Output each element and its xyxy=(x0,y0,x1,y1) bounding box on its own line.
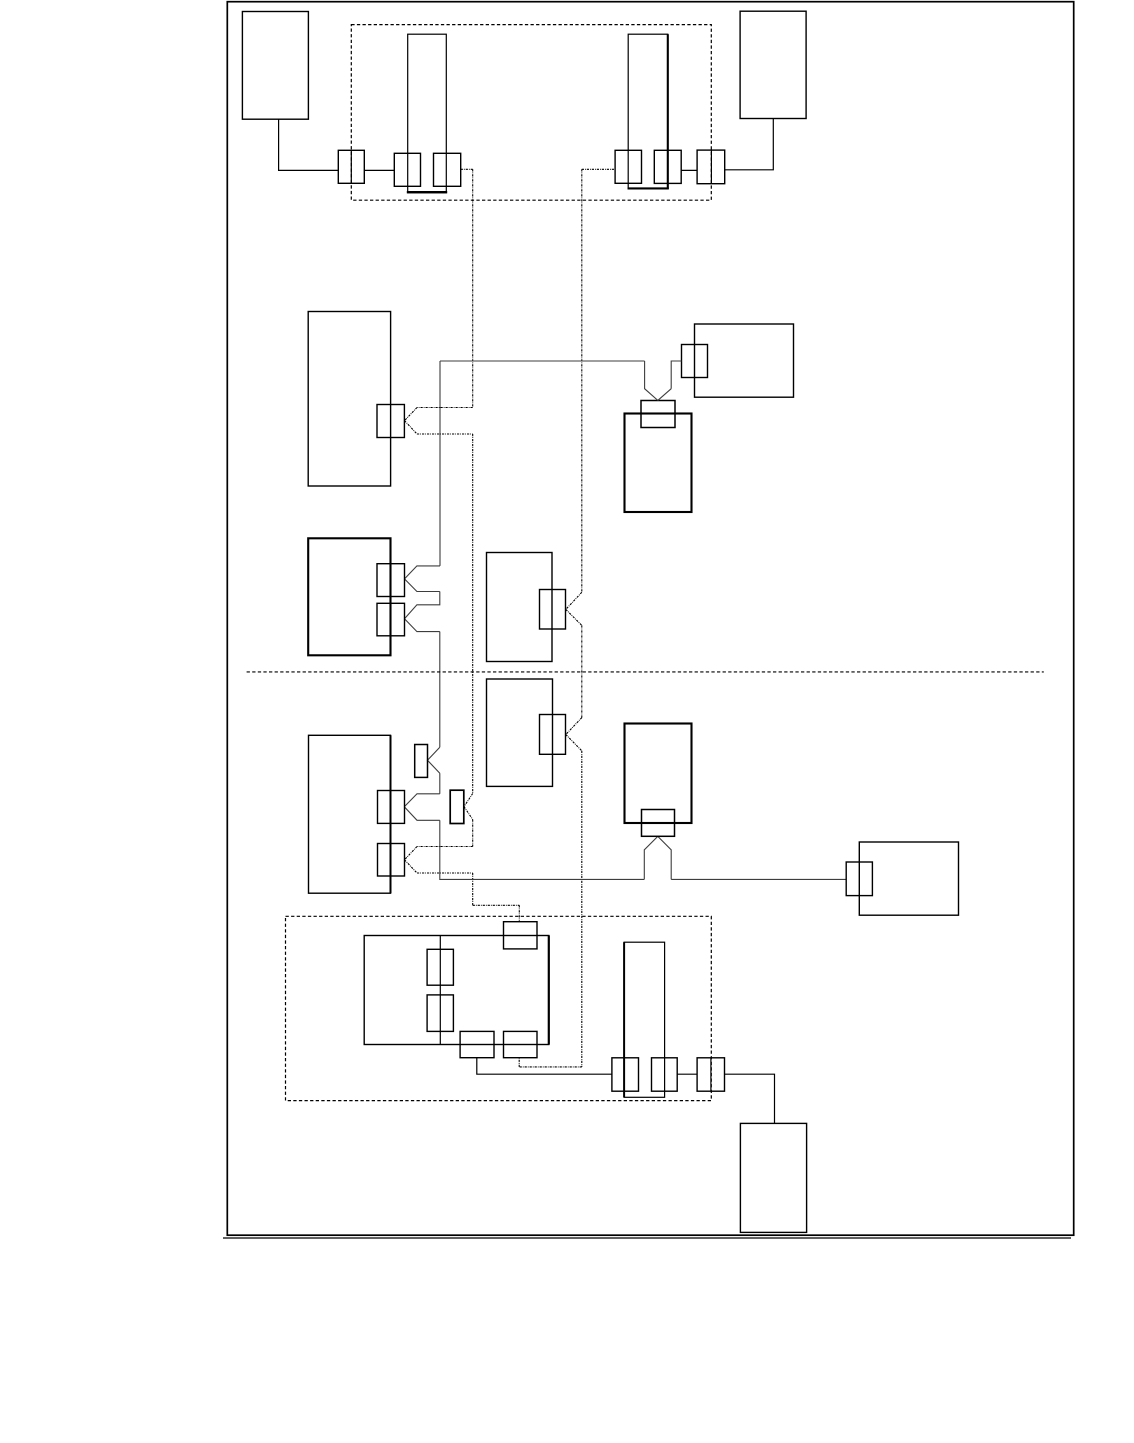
wire: fork left prong up into port PM xyxy=(644,836,658,879)
wire W1: vertical segment below P1 xyxy=(439,773,441,794)
box TB (connector on J top edge) xyxy=(504,922,538,949)
wire W1: vertical segment to bottom corner xyxy=(439,820,441,879)
frame: outer border of sheet xyxy=(227,2,1073,1236)
connector CM1 (on BL left edge) xyxy=(612,1058,639,1091)
link V1 vertical: bottom segment to corner xyxy=(472,873,474,905)
link V1: port P3 fork lower horizontal xyxy=(417,872,473,874)
wire: arrow out of port PF2 lower arm xyxy=(405,619,440,632)
port PF2 on block F right edge xyxy=(377,603,405,636)
link V2: block H port notch upper diagonal xyxy=(566,718,582,735)
wire: detour out of port P2 lower arm xyxy=(404,807,440,821)
link V1 vertical: top segment (CN3 stub down to block C upper fork) xyxy=(472,169,474,407)
tall module BL thick left edge xyxy=(623,942,625,1097)
link V1: port P3 fork lower diagonal xyxy=(405,860,418,873)
block N (bottom-right device) xyxy=(740,1123,806,1232)
block M (thick-bordered unit, lower) xyxy=(625,724,692,824)
connector CN1 divider xyxy=(350,150,352,183)
link V1: block C fork upper horizontal xyxy=(417,407,473,409)
block K (right device) xyxy=(859,842,958,915)
wire: arrow out of port PF1 lower arm xyxy=(405,579,440,592)
dashed enclosure (top unit boundary) xyxy=(351,25,711,201)
dashed enclosure (bottom unit boundary) xyxy=(286,916,712,1100)
connector CM3 (dual, on bottom dashed boundary) xyxy=(697,1058,724,1091)
box BB1 (connector on J bottom edge, left) xyxy=(460,1031,494,1057)
wire: CN5 to CN6 xyxy=(681,169,697,171)
wire W1: vertical segment down to port P1 notch xyxy=(439,632,441,748)
connector CN6 divider xyxy=(710,150,712,184)
block B (top-right device) xyxy=(740,11,806,118)
wire: jog between PF1 and PF2 xyxy=(405,592,440,619)
wire W2: continuation to block K port xyxy=(671,878,846,880)
wire: funnel left arm into port PE xyxy=(645,361,658,400)
wire: BB1 down and right to connector CM1 xyxy=(477,1058,612,1075)
wire W2: long horizontal run to the right xyxy=(440,878,645,881)
connector CN2 (on TL left edge) xyxy=(394,153,420,186)
tall module TR thick right edge xyxy=(667,34,669,189)
port PE on block E top edge xyxy=(641,401,675,428)
connector CN3 (on TL right edge) xyxy=(434,153,461,186)
dash-dot stub: CN3 to vertical link V1 xyxy=(461,168,473,170)
port P4 (small inline connector on link V1) xyxy=(450,790,464,823)
wire: arrow into port PF1 upper arm xyxy=(405,566,441,579)
dash-dot stub: link V2 to CN4 xyxy=(582,168,615,170)
block G (center column, upper) xyxy=(487,553,553,662)
connector CN6 (dual, on right dashed boundary) xyxy=(697,150,725,184)
block F (thick-bordered unit, left) xyxy=(308,538,390,655)
wire: fork right prong up into port PM xyxy=(658,836,671,879)
link V2 vertical: top segment (CN4 stub to block G notch) xyxy=(581,169,583,592)
link V1 vertical: middle segment (C fork to port P4 notch) xyxy=(472,434,474,794)
link V2: block G port notch lower diagonal xyxy=(566,609,582,625)
block J internal divider xyxy=(439,936,441,1045)
tall module BL (bottom card) xyxy=(624,942,665,1097)
wire: port PD stub riser xyxy=(671,361,681,389)
link V2: riser into box BB2 bottom xyxy=(518,1058,520,1067)
wire: funnel right arm into port PE xyxy=(658,389,671,401)
tall module TL (left card in top enclosure) xyxy=(408,34,447,193)
block J thick right edge xyxy=(548,936,550,1045)
block H (center column, lower) xyxy=(487,679,553,786)
link V1: drop into box TB top xyxy=(518,905,520,921)
tall module TR thick bottom bar xyxy=(628,187,669,189)
block J (bottom main board) xyxy=(364,936,549,1045)
link V2: block H port notch lower diagonal xyxy=(566,735,582,751)
wire: CM3 to block N xyxy=(725,1074,775,1123)
link V2 vertical: G to H segment xyxy=(581,625,583,717)
port P1 (small inline connector on wire W1) xyxy=(415,745,428,778)
connector CN4 (on TR left edge) xyxy=(615,150,641,183)
box BB2 (connector on J bottom edge, right) xyxy=(504,1031,538,1057)
link V1: port P3 fork upper horizontal xyxy=(417,846,473,848)
connector CN5 (on TR right edge) xyxy=(654,150,681,183)
link V2 vertical: bottom long segment xyxy=(581,751,583,1067)
link V1: port P4 notch upper diagonal xyxy=(464,794,473,807)
port PD on block D left edge xyxy=(682,345,708,378)
wire: detour into port P2 upper arm xyxy=(404,794,440,807)
tall module TL thick bottom bar xyxy=(407,191,447,193)
wire: notch into port P1 xyxy=(428,747,440,773)
port PH on block H right edge xyxy=(540,715,566,755)
link V1: block C fork lower horizontal xyxy=(417,433,473,435)
port PK on block K left edge xyxy=(846,862,872,896)
link V1 vertical: segment P4 to port P3 fork xyxy=(472,820,474,847)
port PM on block M bottom edge xyxy=(642,810,675,837)
connector CM3 divider xyxy=(710,1058,712,1091)
block A (top-left device) xyxy=(242,12,308,120)
link V2: bottom horizontal to box BB2 xyxy=(519,1066,582,1068)
link V1: corner horizontal into box TB xyxy=(473,904,520,906)
wire W1: vertical drop from bus corner xyxy=(439,361,441,566)
wire: block A to connector CN1 xyxy=(279,119,339,170)
wire W1: main horizontal bus xyxy=(440,360,645,362)
block I thick right edge xyxy=(390,735,392,893)
connector CM2 (on BL right edge) xyxy=(652,1058,678,1091)
link V1: block C fork upper diagonal xyxy=(405,408,418,421)
box R2 (internal connector on J divider, lower) xyxy=(427,995,453,1032)
block I (lower-left device) xyxy=(309,735,391,893)
link V2: block G port notch upper diagonal xyxy=(566,592,582,609)
wire: CM2 to CM3 xyxy=(677,1073,697,1075)
wire: block B to connector CN6 xyxy=(725,119,774,170)
frame: extra bottom edge line xyxy=(223,1237,1071,1239)
port PC on block C right edge xyxy=(377,405,404,438)
port P3 on block I right edge xyxy=(378,844,405,877)
dashed separator line between upper and lower halves xyxy=(247,671,1044,673)
connector CN1 (dual, on left dashed boundary) xyxy=(338,150,364,183)
link V1: block C fork lower diagonal xyxy=(405,421,418,434)
block C (middle-left device) xyxy=(308,312,390,487)
wire: CN1 to CN2 xyxy=(364,169,394,171)
port P2 on block I right edge xyxy=(378,791,405,824)
link V1: port P4 notch lower diagonal xyxy=(464,807,473,820)
tall module TR (right card in top enclosure) xyxy=(628,34,668,189)
block D (middle-right device) xyxy=(695,324,794,397)
link V1: port P3 fork upper diagonal xyxy=(405,847,418,860)
block E (thick-bordered unit, upper) xyxy=(625,414,692,513)
port PG on block G right edge xyxy=(540,590,566,630)
port PF1 on block F right edge xyxy=(377,564,405,597)
box R1 (internal connector on J divider, upper) xyxy=(427,949,453,985)
